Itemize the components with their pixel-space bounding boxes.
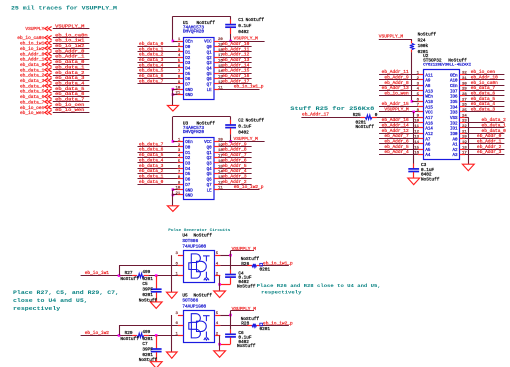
svg-text:eb_Addr_0: eb_Addr_0 [20, 51, 45, 57]
svg-text:eb_data_2: eb_data_2 [139, 168, 164, 174]
U5 pin 4 stub [215, 325, 220, 327]
svg-text:eb_Addr_3: eb_Addr_3 [477, 149, 502, 155]
svg-text:eb_data_6: eb_data_6 [20, 94, 45, 100]
U3 pin 15 (Q4) stub [214, 168, 219, 170]
AND gate U5 74AUP1G08 body [184, 311, 215, 343]
wire eb_data_3 from U2 IO3 [465, 111, 504, 113]
U2 pin 28 (IO6) stub [460, 95, 465, 97]
svg-text:WEn: WEn [425, 96, 433, 100]
svg-text:0201: 0201 [260, 327, 271, 332]
svg-text:Q1: Q1 [207, 51, 213, 55]
svg-text:13: 13 [414, 136, 419, 140]
svg-text:eb_io_iw2_p: eb_io_iw2_p [263, 320, 293, 326]
wire U3 pin1 to vertical [173, 141, 178, 143]
svg-text:eb_Addr_13: eb_Addr_13 [222, 57, 249, 63]
svg-text:eb_Addr_5: eb_Addr_5 [384, 144, 409, 150]
wire pin 4 to R28 [220, 325, 247, 327]
U2 pin 14 (A6) stub [418, 143, 423, 145]
U3 pin 17 (Q2) stub [214, 157, 219, 159]
wire net eb_Addr_1 [53, 59, 90, 61]
svg-text:eb_data_2: eb_data_2 [482, 117, 507, 123]
wire U3 GND pin21 to vertical [173, 194, 178, 196]
svg-text:eb_io_iw1: eb_io_iw1 [85, 270, 110, 276]
wire U1 GND pin21 to vertical [173, 94, 178, 96]
svg-text:eb_data_2: eb_data_2 [55, 70, 84, 76]
svg-text:10: 10 [175, 187, 180, 191]
wire eb_data_1 to U3 D6 [138, 178, 178, 180]
svg-text:eb_data_6: eb_data_6 [139, 73, 164, 79]
svg-text:CY62128EV30LL-45ZAXI: CY62128EV30LL-45ZAXI [423, 64, 471, 68]
U5 pin 6 stub [178, 325, 183, 327]
U2 pin 31 (A10) stub [460, 79, 465, 81]
svg-text:NoStuff: NoStuff [237, 284, 256, 289]
svg-text:D3: D3 [185, 62, 191, 66]
U3 pin 2 (D0) stub [178, 146, 183, 148]
U2 pin 7 (A15) stub [418, 106, 423, 108]
svg-text:Place R26 and R28 close to U4: Place R26 and R28 close to U4 and U5, [257, 283, 381, 289]
wire eb_Addr_5 from U3 Q4 [219, 168, 251, 170]
svg-text:Q5: Q5 [207, 73, 213, 77]
U3 pin 1 (OEn) stub [178, 141, 183, 143]
svg-text:OEn: OEn [450, 74, 458, 78]
svg-text:32: 32 [462, 72, 467, 76]
wire net eb_io_iw2 [53, 48, 90, 50]
svg-text:NoStuff: NoStuff [139, 298, 158, 303]
svg-text:499: 499 [142, 330, 150, 335]
wire U5 pin 3 to ground vertical [171, 315, 173, 352]
wire eb_data_2 from U2 IO2 [465, 122, 504, 124]
wire eb_Addr_3 from U3 Q6 [219, 178, 251, 180]
svg-text:Q2: Q2 [207, 157, 213, 161]
svg-text:D6: D6 [185, 179, 191, 183]
U2 pin 17 (A3) stub [460, 154, 465, 156]
svg-text:NoStuff: NoStuff [194, 234, 213, 239]
svg-text:eb_io_oen: eb_io_oen [55, 102, 84, 108]
svg-text:GND: GND [185, 195, 193, 199]
wire eb_data_5 to U3 D2 [138, 157, 178, 159]
wire U1 GND down [172, 89, 174, 105]
wire input split to pin 6 [119, 265, 178, 267]
U2 pin 4 (A13) stub [418, 90, 423, 92]
wire U1 GND pin10 to vertical [173, 89, 178, 91]
U2 pin 1 (A11) stub [418, 74, 423, 76]
U2 pin 12 (A12) stub [418, 133, 423, 135]
U2 pin 3 (A8) stub [418, 85, 423, 87]
wire VCC down to C6 [230, 315, 232, 330]
U1 pin 16 (Q3) stub [214, 62, 219, 64]
wire eb_Addr_10 from U2 A10 [465, 79, 504, 81]
svg-text:Q2: Q2 [207, 57, 213, 61]
wire input split up [119, 325, 121, 335]
wire eb_Addr_7 from U3 Q2 [219, 157, 251, 159]
svg-text:D0: D0 [185, 46, 191, 50]
svg-text:eb_Addr_9: eb_Addr_9 [384, 75, 409, 81]
svg-text:A11: A11 [425, 74, 433, 78]
U2 pin 2 (A9) stub [418, 79, 423, 81]
svg-text:eb_Addr_0: eb_Addr_0 [477, 133, 502, 139]
wire eb_data_7 to U3 D0 [138, 146, 178, 148]
wire C4 to gnd corner [230, 278, 232, 285]
svg-text:eb_Addr_5: eb_Addr_5 [222, 163, 247, 169]
svg-text:D2: D2 [185, 57, 191, 61]
wire U3 GND down [172, 190, 174, 206]
wire R29 to C7 junction [144, 335, 149, 337]
svg-text:DHVQFN20: DHVQFN20 [183, 30, 204, 35]
U2 pin 26 (IO4) stub [460, 106, 465, 108]
junction at OEn pin 1 [172, 40, 175, 43]
wire net eb_io_iw1 [53, 43, 90, 45]
U1 pin 19 (Q0) stub [214, 46, 219, 48]
svg-text:VCC: VCC [425, 112, 433, 116]
svg-text:eb_data_5: eb_data_5 [55, 86, 84, 92]
svg-text:A8: A8 [425, 85, 431, 89]
wire VSUPPLY_M to U2 VCC [379, 111, 418, 113]
svg-text:A5: A5 [425, 149, 431, 153]
svg-text:NoStuff: NoStuff [120, 337, 139, 342]
U2 pin 30 (CEn) stub [460, 85, 465, 87]
svg-text:eb_Addr_15: eb_Addr_15 [222, 68, 249, 74]
svg-text:eb_Addr_1: eb_Addr_1 [477, 139, 502, 145]
resistor R29 499 [137, 333, 144, 337]
ground at pin 2 [214, 351, 226, 358]
svg-text:NoStuff: NoStuff [246, 18, 265, 23]
svg-text:499: 499 [142, 270, 150, 275]
wire R27 to C5 junction [144, 275, 149, 277]
svg-text:eb_io_iw2: eb_io_iw2 [85, 330, 110, 336]
U3 pin 7 (D5) stub [178, 173, 183, 175]
svg-text:R27: R27 [125, 271, 133, 276]
U2 pin 19 (A1) stub [460, 143, 465, 145]
wire R25 to U2 A17 [372, 117, 377, 119]
svg-text:C2: C2 [238, 119, 244, 124]
svg-text:Q4: Q4 [207, 168, 213, 172]
U3 pin 18 (Q1) stub [214, 152, 219, 154]
wire VSUPPLY_M stub [230, 251, 232, 255]
wire eb_Addr_12 from U1 Q2 [219, 57, 251, 59]
svg-text:eb_Addr_11: eb_Addr_11 [222, 46, 249, 52]
U2 pin 18 (A2) stub [460, 149, 465, 151]
U1 pin 11 (LE) stub [214, 89, 219, 91]
U3 pin 10 (GND) stub [178, 189, 183, 191]
wire eb_Addr_13 to U2 A13 [379, 90, 418, 92]
wire OEn feedback loop top rail [173, 16, 231, 18]
U2 pin 24 (VSS) stub [460, 117, 465, 119]
svg-text:Q3: Q3 [207, 163, 213, 167]
U2 pin 22 (IO1) stub [460, 127, 465, 129]
U1 pin 3 (D1) stub [178, 51, 183, 53]
svg-text:A0: A0 [452, 138, 458, 142]
capacitor C6 0.1uF [225, 334, 236, 337]
wire VCC down to C4 [230, 255, 232, 270]
U2 pin 15 (A5) stub [418, 149, 423, 151]
U5 gate symbol [189, 314, 210, 340]
wire eb_Addr_2 from U3 Q7 [219, 184, 251, 186]
svg-text:respectively: respectively [13, 306, 61, 312]
U2 pin 25 (IO3) stub [460, 111, 465, 113]
svg-text:eb_Addr_14: eb_Addr_14 [382, 123, 409, 129]
svg-text:eb_data_0: eb_data_0 [20, 62, 45, 68]
wire VCC pin to junction [220, 315, 230, 317]
svg-text:VSUPPLY_M: VSUPPLY_M [379, 34, 404, 40]
junction VCC [229, 254, 232, 257]
U3 pin 4 (D2) stub [178, 157, 183, 159]
wire eb_data_0 from U2 IO0 [465, 133, 504, 135]
svg-text:eb_io_iw2_p: eb_io_iw2_p [234, 184, 264, 190]
svg-text:26: 26 [462, 104, 467, 108]
wire U3 GND pin10 to vertical [173, 189, 178, 191]
wire eb_data_5 to U1 D5 [138, 73, 178, 75]
U1 pin 18 (Q1) stub [214, 51, 219, 53]
U1 pin 15 (Q4) stub [214, 67, 219, 69]
svg-text:39PF: 39PF [142, 288, 153, 293]
svg-text:eb_Addr_6: eb_Addr_6 [384, 139, 409, 145]
wire eb_Addr_15 to U2 A15 [379, 106, 418, 108]
U2 pin 6 (A18) stub [418, 101, 423, 103]
svg-text:D7: D7 [185, 84, 191, 88]
svg-text:eb_Addr_7: eb_Addr_7 [384, 133, 409, 139]
svg-text:NoStuff: NoStuff [139, 358, 158, 363]
wire eb_data_7 from U2 IO7 [465, 90, 504, 92]
svg-text:eb_io_iw1_p: eb_io_iw1_p [263, 261, 293, 267]
svg-text:D1: D1 [185, 152, 191, 156]
svg-text:eb_Addr_7: eb_Addr_7 [222, 152, 247, 158]
wire net VSUPPLY_M [53, 28, 90, 30]
junction VCC [229, 314, 232, 317]
svg-text:eb_Addr_8: eb_Addr_8 [384, 80, 409, 86]
wire net eb_data_2 [53, 75, 90, 77]
svg-text:R26: R26 [241, 262, 249, 267]
svg-text:74AUP1G08: 74AUP1G08 [182, 305, 206, 310]
U3 pin 8 (D6) stub [178, 178, 183, 180]
U1 pin 21 (GND) stub [178, 94, 183, 96]
junction R24 wire at A18 row [411, 100, 414, 103]
svg-text:eb_io_wen: eb_io_wen [55, 107, 84, 113]
wire C7 lead [156, 335, 158, 348]
wire R24 to U2 A18 [411, 50, 413, 53]
wire net eb_io_ca0n [53, 37, 90, 39]
svg-text:respectively: respectively [261, 289, 302, 295]
svg-text:D5: D5 [185, 173, 191, 177]
wire OEn feedback loop vertical left [172, 16, 174, 41]
svg-text:C1: C1 [238, 18, 244, 23]
svg-text:eb_Addr_17: eb_Addr_17 [302, 112, 329, 118]
resistor R25 0 ohm [365, 115, 372, 119]
svg-text:eb_Addr_10: eb_Addr_10 [471, 75, 498, 81]
U3 pin 14 (Q5) stub [214, 173, 219, 175]
U1 pin 12 (Q7) stub [214, 83, 219, 85]
svg-text:eb_io_iw1_p: eb_io_iw1_p [234, 84, 264, 90]
wire eb_Addr_9 to U2 A9 [379, 79, 418, 81]
svg-text:eb_data_4: eb_data_4 [55, 81, 84, 87]
capacitor C4 0.1uF [225, 275, 236, 278]
svg-text:A10: A10 [450, 80, 458, 84]
svg-text:Q5: Q5 [207, 173, 213, 177]
U1 pin 9 (D7) stub [178, 83, 183, 85]
U4 pin 4 stub [215, 265, 220, 267]
svg-text:100k: 100k [418, 44, 429, 49]
wire eb_data_3 to U3 D4 [138, 168, 178, 170]
svg-text:eb_Addr_10: eb_Addr_10 [222, 41, 249, 47]
svg-text:eb_data_2: eb_data_2 [139, 52, 164, 58]
svg-text:eb_Addr_11: eb_Addr_11 [382, 69, 409, 75]
U1 pin 1 (OEn) stub [178, 41, 183, 43]
wire down to R24 [411, 39, 413, 41]
U1 pin 14 (Q5) stub [214, 73, 219, 75]
svg-text:Q7: Q7 [207, 84, 213, 88]
U2 pin 27 (IO5) stub [460, 101, 465, 103]
capacitor C2 [225, 125, 236, 128]
wire eb_io_ca0n from U2 CEn [465, 85, 504, 87]
U5 pin 3 stub [178, 315, 183, 317]
wire eb_Addr_16 to U2 A16 [379, 122, 418, 124]
wire net eb_io_oen [53, 107, 90, 109]
svg-text:74AUP1G08: 74AUP1G08 [182, 245, 206, 250]
svg-text:Pulse Generator Circuits: Pulse Generator Circuits [168, 228, 231, 233]
svg-text:IO5: IO5 [450, 101, 458, 105]
svg-text:A9: A9 [425, 80, 431, 84]
wire eb_data_1 from U2 IO1 [465, 127, 504, 129]
svg-text:eb_data_7: eb_data_7 [139, 141, 164, 147]
capacitor C5 39PF [151, 289, 162, 292]
svg-text:eb_io_oen: eb_io_oen [471, 69, 496, 75]
svg-text:eb_data_7: eb_data_7 [139, 78, 164, 84]
svg-text:Q7: Q7 [207, 184, 213, 188]
svg-text:eb_Addr_3: eb_Addr_3 [222, 174, 247, 180]
U2 pin 5 (WEn) stub [418, 95, 423, 97]
svg-text:Q6: Q6 [207, 179, 213, 183]
svg-text:R24: R24 [418, 38, 426, 43]
wire U2 VSS right [465, 117, 468, 119]
ground below C5 [150, 302, 162, 309]
U3 pin 16 (Q3) stub [214, 162, 219, 164]
svg-text:eb_data_3: eb_data_3 [139, 163, 164, 169]
svg-text:eb_io_iw1: eb_io_iw1 [20, 41, 45, 47]
junction gnd corner [218, 343, 221, 346]
U3 pin 3 (D1) stub [178, 152, 183, 154]
wire VSUPPLY_M to R24 [379, 39, 412, 41]
wire eb_Addr_6 from U3 Q3 [219, 162, 251, 164]
U3 pin 11 (LE) stub [214, 189, 219, 191]
svg-text:eb_data_5: eb_data_5 [20, 89, 45, 95]
svg-text:VSUPPLY_M: VSUPPLY_M [234, 35, 259, 41]
svg-text:eb_Addr_6: eb_Addr_6 [222, 157, 247, 163]
svg-text:VSUPPLY: VSUPPLY [25, 26, 44, 32]
svg-text:eb_Addr_12: eb_Addr_12 [222, 52, 249, 58]
svg-text:0201: 0201 [260, 267, 271, 272]
wire eb_Addr_0 from U2 A0 [465, 138, 504, 140]
svg-text:A4: A4 [425, 154, 431, 158]
ground below U2 VSS [462, 164, 474, 171]
U2 pin 32 (OEn) stub [460, 74, 465, 76]
svg-text:eb_data_1: eb_data_1 [55, 64, 84, 70]
wire net eb_io_iw1 [81, 275, 133, 277]
svg-text:0402: 0402 [238, 131, 249, 136]
svg-text:eb_data_7: eb_data_7 [55, 97, 84, 103]
svg-text:D1: D1 [185, 51, 191, 55]
wire C3 to ground [413, 172, 415, 178]
svg-text:eb_data_7: eb_data_7 [20, 99, 45, 105]
svg-text:D0: D0 [185, 147, 191, 151]
wire net eb_data_3 [53, 80, 90, 82]
wire eb_data_6 to U3 D1 [138, 152, 178, 154]
svg-text:NoStuff: NoStuff [120, 277, 139, 282]
U3 pin 13 (Q6) stub [214, 178, 219, 180]
wire net eb_Addr_0 [53, 53, 90, 55]
svg-text:A6: A6 [425, 144, 431, 148]
wire C5 lead [156, 276, 158, 289]
svg-text:IO1: IO1 [450, 128, 458, 132]
wire net eb_io_iw2 [81, 335, 133, 337]
U2 pin 20 (A0) stub [460, 138, 465, 140]
wire VSUPPLY_M stub [230, 311, 232, 315]
latch U3 74AHC573 body [184, 138, 215, 200]
U4 pin 3 stub [178, 255, 183, 257]
svg-text:VSUPPLY_M: VSUPPLY_M [232, 246, 257, 252]
wire eb_data_4 to U1 D4 [138, 67, 178, 69]
resistor R27 499 [137, 274, 144, 278]
wire net eb_io_wen [53, 112, 90, 114]
svg-text:eb_Addr_2: eb_Addr_2 [222, 179, 247, 185]
svg-text:A15: A15 [425, 106, 433, 110]
wire eb_Addr_2 from U2 A2 [465, 149, 504, 151]
wire eb_data_2 to U3 D5 [138, 173, 178, 175]
svg-text:16: 16 [414, 152, 419, 156]
port marker eb_io_iw2_p [260, 323, 263, 326]
svg-text:eb_data_1: eb_data_1 [139, 174, 164, 180]
wire eb_data_5 from U2 IO5 [465, 101, 504, 103]
U2 pin 13 (A7) stub [418, 138, 423, 140]
wire pin 2 down to ground [219, 335, 221, 350]
junction at U3 OEn pin 1 [172, 140, 175, 143]
resistor R24 100k [410, 43, 414, 49]
wire eb_data_3 to U1 D3 [138, 62, 178, 64]
svg-text:A16: A16 [425, 122, 433, 126]
U1 pin 4 (D2) stub [178, 57, 183, 59]
svg-text:GND: GND [185, 189, 193, 193]
wire eb_data_6 to U1 D6 [138, 78, 178, 80]
wire eb_Addr_9 from U3 Q0 [219, 146, 251, 148]
junction C5 tap [155, 274, 158, 277]
wire eb_Addr_8 to U2 A8 [379, 85, 418, 87]
svg-text:0201: 0201 [418, 50, 429, 55]
junction gnd corner [218, 283, 221, 286]
svg-text:eb_data_0: eb_data_0 [139, 179, 164, 185]
svg-text:Stuff R25 for 256Kx8: Stuff R25 for 256Kx8 [290, 105, 375, 112]
wire eb_Addr_17 to R25 [301, 117, 360, 119]
wire top rail down to C1 [230, 16, 232, 19]
svg-text:eb_Addr_9: eb_Addr_9 [222, 141, 247, 147]
svg-text:R25: R25 [353, 113, 361, 118]
svg-text:eb_Addr_12: eb_Addr_12 [382, 128, 409, 134]
wire eb_io_iw2_p from U3 LE [219, 189, 259, 191]
wire eb_Addr_5 to U2 A5 [379, 149, 418, 151]
svg-text:eb_data_3: eb_data_3 [20, 78, 45, 84]
svg-text:eb_data_7: eb_data_7 [471, 85, 496, 91]
svg-text:A17: A17 [425, 117, 433, 121]
svg-text:Q6: Q6 [207, 78, 213, 82]
U4 gate symbol [189, 254, 210, 280]
svg-text:IO4: IO4 [450, 106, 458, 110]
wire eb_Addr_7 to U2 A7 [379, 138, 418, 140]
ground below U1 [167, 105, 178, 111]
svg-text:GND: GND [185, 94, 193, 98]
svg-text:GND: GND [185, 89, 193, 93]
U4 pin 2 stub [215, 275, 220, 277]
U5 pin 1 stub [178, 335, 183, 337]
wire net eb_data_1 [53, 69, 90, 71]
wire eb_Addr_13 from U1 Q3 [219, 62, 251, 64]
svg-text:eb_io_wen: eb_io_wen [20, 110, 45, 116]
